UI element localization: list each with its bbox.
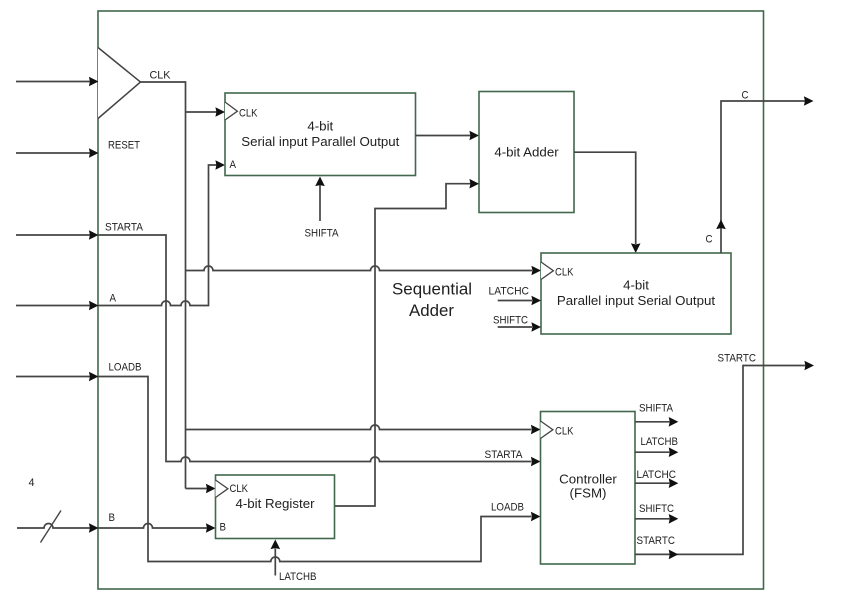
clock buffer triangle U6 [98,48,141,119]
svg-text:4: 4 [29,477,35,489]
wire U4 output to U2 second input [335,184,471,506]
svg-text:Parallel input Serial Output: Parallel input Serial Output [557,293,715,308]
svg-text:STARTA: STARTA [105,222,143,234]
svg-text:LATCHC: LATCHC [489,286,530,298]
wire C net: U3 top up and out [721,101,805,253]
wire LATCHC stub [498,300,532,302]
svg-text:Adder: Adder [409,301,454,320]
wire B net to U4 [98,524,207,529]
block U4: 4-bit Register [216,475,335,539]
svg-text:STARTC: STARTC [637,535,676,547]
block U5: Controller (FSM) [541,412,636,565]
wire LATCHB output U5 [635,451,670,453]
svg-text:CLK: CLK [555,267,574,279]
outer boundary box [98,11,764,589]
input wire B (external bus) [17,524,90,529]
svg-text:Sequential: Sequential [392,280,472,299]
svg-text:Controller: Controller [559,472,617,487]
svg-text:CLK: CLK [150,70,172,82]
input wire STARTA (external) [16,234,90,236]
wire CLK branch to U3 clock [186,266,533,271]
wire SHIFTC output U5 [635,518,670,520]
wire U2 output down to U3 [574,152,636,244]
pin CLK chevron U3 [541,262,553,280]
svg-text:4-bit Adder: 4-bit Adder [494,145,559,160]
wire SHIFTA output U5 [635,421,670,423]
wire STARTC output net [635,366,806,555]
input wire A (external) [16,305,90,307]
svg-text:4-bit: 4-bit [623,278,649,293]
wire SHIFTC stub [498,326,532,328]
svg-text:LOADB: LOADB [109,362,142,374]
pin CLK chevron U4 [216,480,228,498]
svg-text:CLK: CLK [239,107,258,119]
input wire LOADB (external) [16,376,90,378]
wire CLK branch to U4 clock [186,488,208,490]
input wire CLK (external) [16,81,90,83]
svg-text:C: C [706,234,713,246]
svg-text:4-bit: 4-bit [307,119,333,134]
block U2: 4-bit Adder [479,92,574,213]
svg-text:SHIFTC: SHIFTC [639,503,674,515]
svg-text:CLK: CLK [555,426,574,438]
svg-text:RESET: RESET [108,140,140,152]
svg-text:(FSM): (FSM) [570,486,607,501]
wire CLK branch to U1 clock [186,111,217,113]
svg-text:Serial input Parallel Output: Serial input Parallel Output [241,134,399,149]
svg-text:SHIFTA: SHIFTA [305,228,339,240]
input wire RESET (external) [16,152,90,154]
svg-text:STARTC: STARTC [718,353,757,365]
svg-text:STARTA: STARTA [485,449,523,461]
svg-text:LATCHC: LATCHC [637,469,677,481]
svg-text:LATCHB: LATCHB [279,571,317,583]
svg-text:B: B [109,512,116,524]
block U1: 4-bit Serial input Parallel Output [225,93,416,176]
svg-text:SHIFTA: SHIFTA [639,402,673,414]
wire CLK trunk [141,82,186,489]
svg-text:C: C [742,90,749,102]
svg-text:A: A [110,292,117,304]
wire A net to U1 [98,165,217,306]
svg-text:B: B [220,522,227,534]
svg-text:4-bit Register: 4-bit Register [235,496,315,511]
wire LOADB net to U5 [98,377,532,562]
wire LATCHC output U5 [635,482,670,484]
pin CLK chevron U1 [225,102,237,120]
bus slash [41,511,62,543]
svg-text:CLK: CLK [230,483,249,495]
wire STARTA net to U5 [98,235,532,462]
svg-text:SHIFTC: SHIFTC [493,315,528,327]
wire SHIFTA stub into U1 [319,185,321,222]
pin CLK chevron U5 [541,421,553,439]
svg-text:LOADB: LOADB [491,502,524,514]
wire CLK branch to U5 clock [186,425,532,430]
svg-text:A: A [230,159,237,171]
wire LATCHB stub into U4 [274,549,276,576]
wire U1 output to U2 input [416,135,471,137]
svg-text:LATCHB: LATCHB [641,436,679,448]
block U3: 4-bit Parallel input Serial Output [541,253,731,334]
